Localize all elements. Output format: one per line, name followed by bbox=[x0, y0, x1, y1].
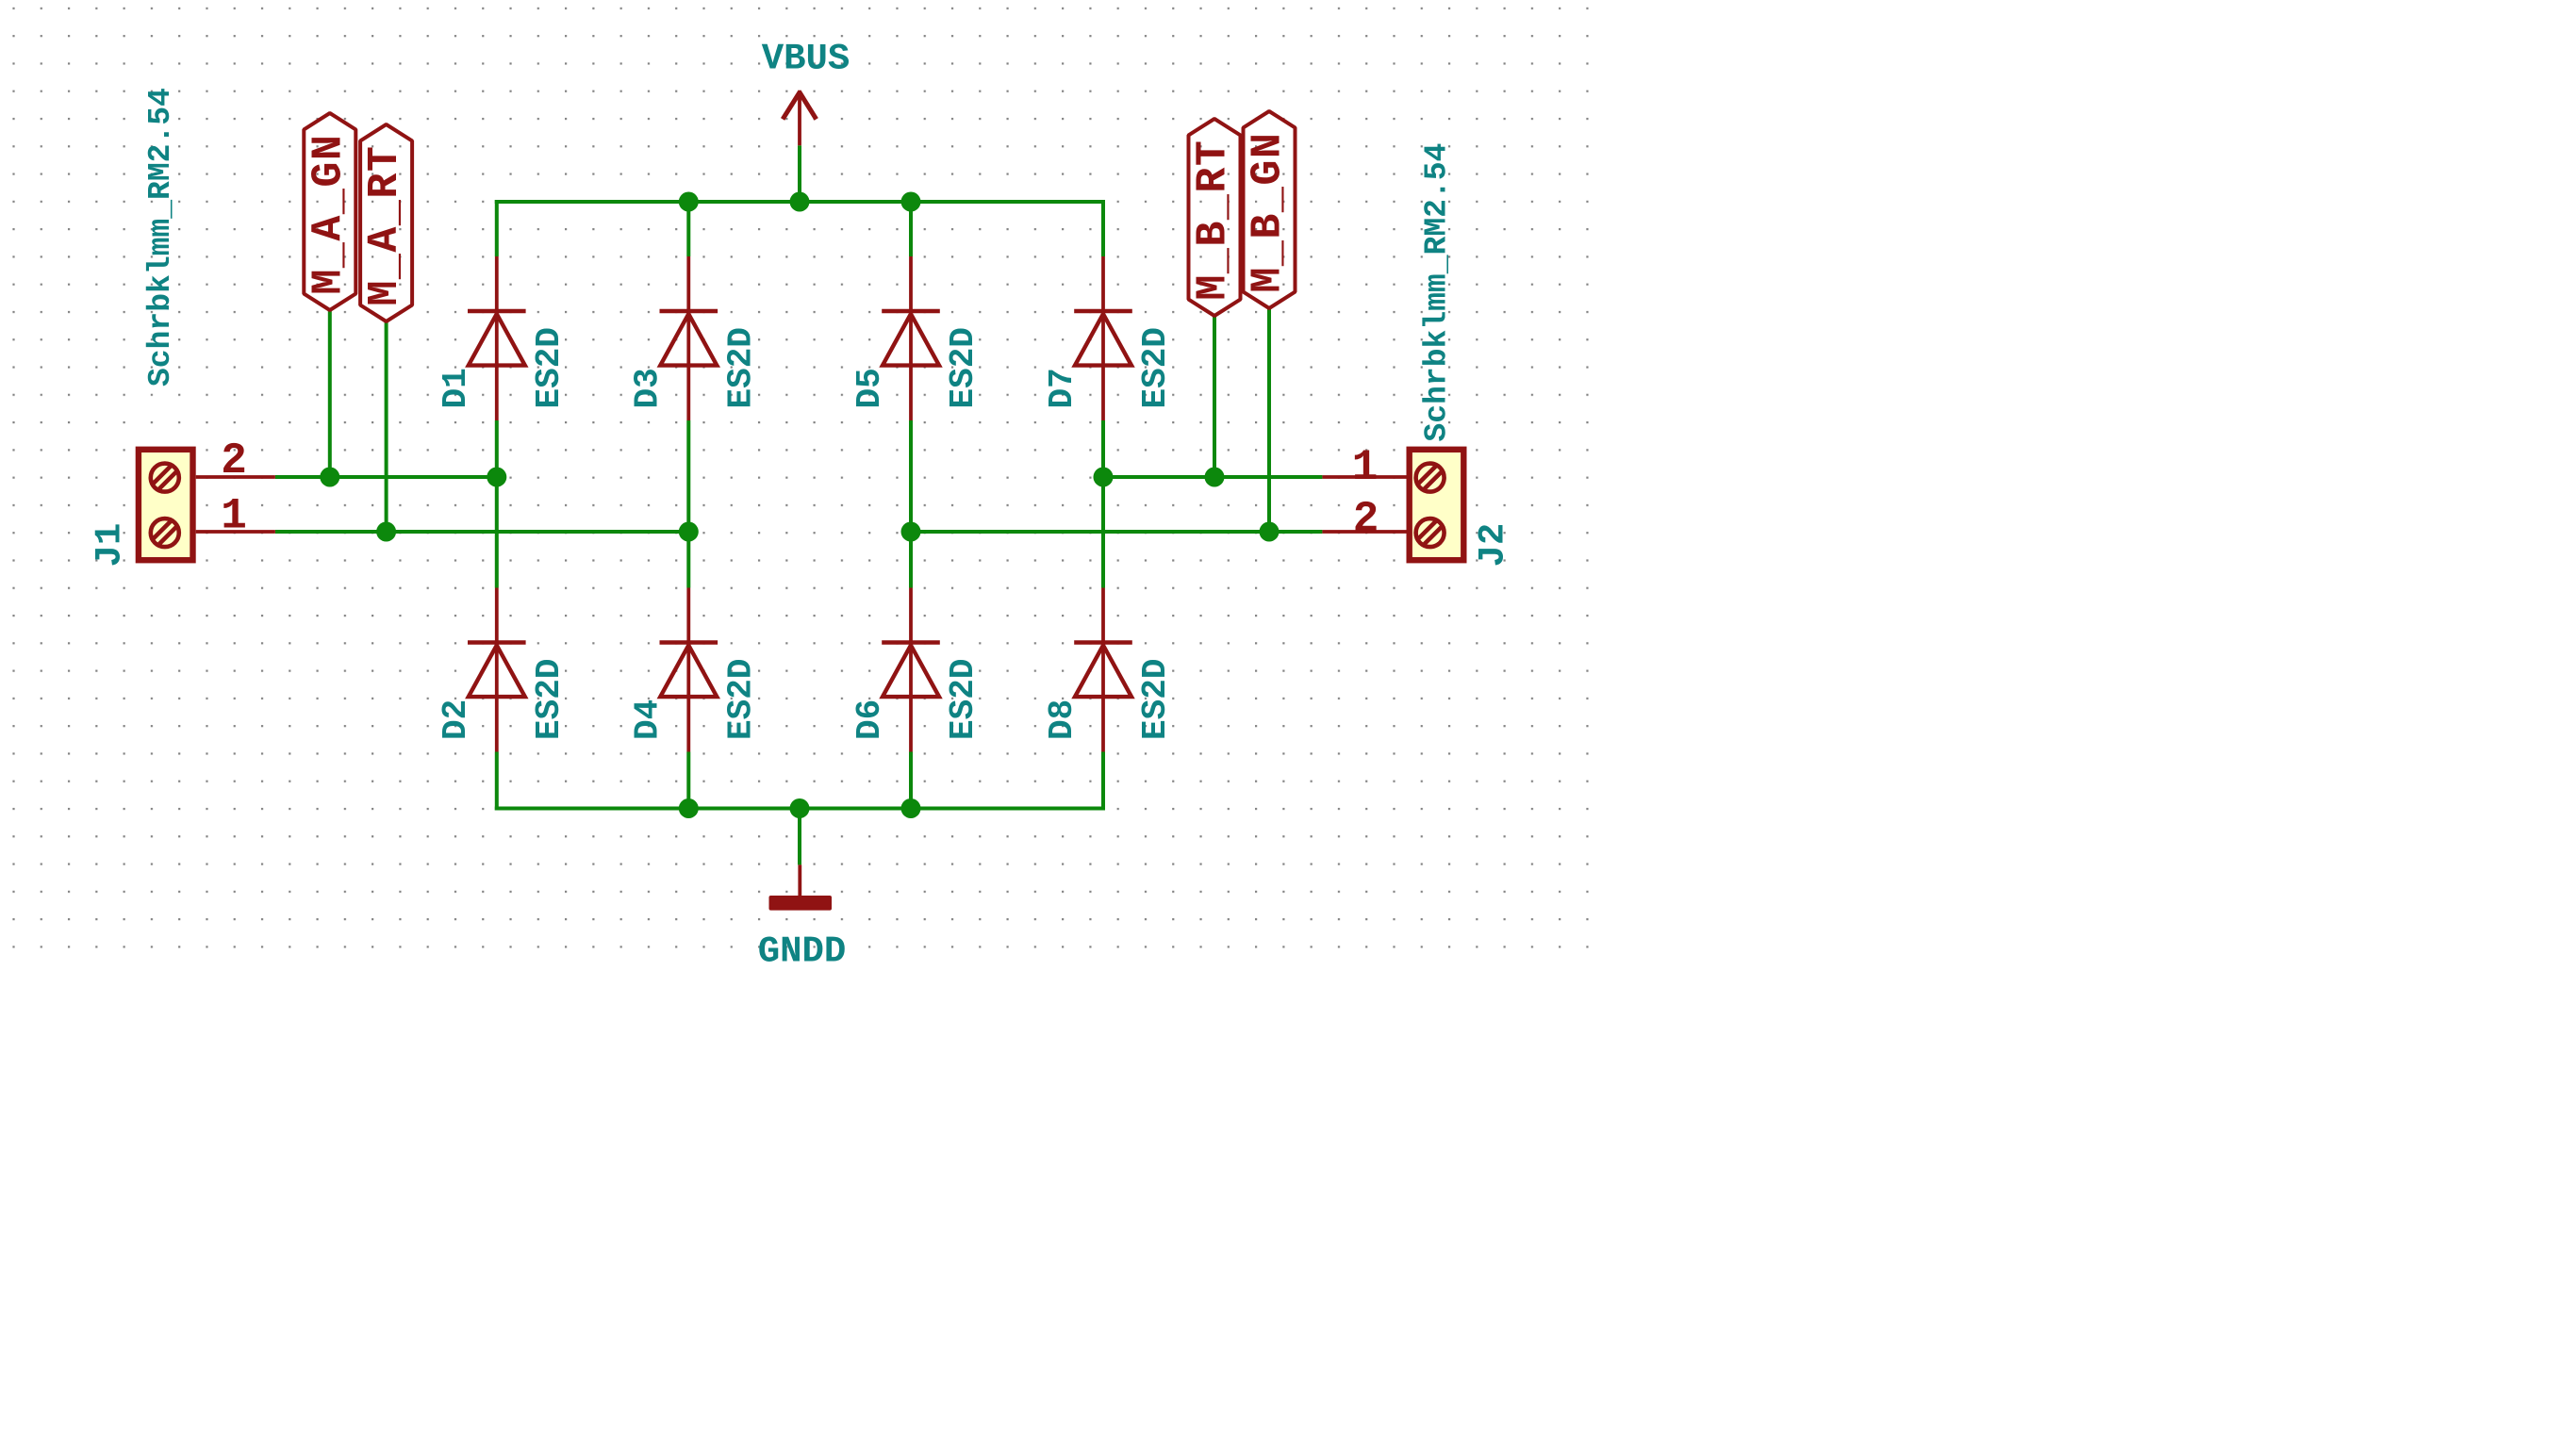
wire row M_A_GN (J1 pin2 to D1/D2) bbox=[275, 475, 497, 479]
wire column D7/D8 upper segment bbox=[1101, 200, 1105, 256]
svg-text:J2: J2 bbox=[1473, 523, 1514, 568]
wire bottom bus GNDD net bbox=[495, 807, 1105, 811]
net label flag M_B_GN bbox=[1244, 111, 1296, 308]
pin J2.2 bbox=[1322, 530, 1406, 534]
wire M_A_GN flag stub bbox=[328, 310, 332, 477]
wire column D3/D4 upper segment bbox=[686, 200, 690, 256]
svg-text:D1: D1 bbox=[437, 368, 475, 408]
junction M_A_GN flag / row bbox=[320, 468, 339, 487]
svg-text:D3: D3 bbox=[629, 368, 668, 408]
junction top bus / D5 bbox=[901, 192, 921, 212]
wire row M_B_RT (D7/D8 to J2 pin1) bbox=[1103, 475, 1322, 479]
wire top bus VBUS net bbox=[495, 200, 1105, 204]
ground symbol GNDD bbox=[769, 864, 833, 910]
pin J2.1 bbox=[1322, 475, 1406, 479]
svg-text:GNDD: GNDD bbox=[758, 931, 847, 973]
wire M_A_RT flag stub bbox=[385, 321, 388, 532]
diode D4 bbox=[660, 588, 718, 752]
junction row / D3-D4 bbox=[679, 522, 699, 542]
svg-text:D5: D5 bbox=[850, 368, 889, 408]
svg-text:ES2D: ES2D bbox=[1136, 327, 1175, 408]
wire column D3/D4 middle segment bbox=[686, 420, 690, 588]
net label flag M_B_RT bbox=[1189, 119, 1241, 316]
junction M_B_GN flag / row bbox=[1260, 522, 1280, 542]
junction row / D1-D2 bbox=[487, 468, 506, 487]
power symbol VBUS bbox=[783, 90, 817, 146]
connector J1 terminal block Schrbklmm_RM2.54 bbox=[139, 450, 193, 560]
diode D3 bbox=[660, 256, 718, 420]
wire VBUS stub bbox=[798, 145, 801, 202]
svg-text:ES2D: ES2D bbox=[1136, 659, 1175, 740]
screw terminal J1 lower bbox=[151, 518, 179, 547]
wire row M_A_RT (J1 pin1 to D3/D4) bbox=[275, 530, 688, 534]
svg-text:D8: D8 bbox=[1043, 699, 1082, 740]
diode D8 bbox=[1074, 588, 1132, 752]
svg-text:M_B_RT: M_B_RT bbox=[1190, 140, 1238, 301]
svg-text:ES2D: ES2D bbox=[721, 327, 760, 408]
svg-text:1: 1 bbox=[1352, 443, 1379, 492]
svg-text:D4: D4 bbox=[629, 699, 668, 740]
wire column D7/D8 lower segment bbox=[1101, 752, 1105, 811]
svg-text:ES2D: ES2D bbox=[530, 327, 569, 408]
screw terminal J1 upper bbox=[151, 464, 179, 492]
svg-text:ES2D: ES2D bbox=[944, 327, 983, 408]
wire column D5/D6 upper segment bbox=[909, 200, 913, 256]
svg-text:VBUS: VBUS bbox=[762, 39, 850, 80]
svg-text:ES2D: ES2D bbox=[944, 659, 983, 740]
svg-text:Schrbklmm_RM2.54: Schrbklmm_RM2.54 bbox=[1420, 143, 1455, 442]
diode D2 bbox=[468, 588, 526, 752]
svg-text:J1: J1 bbox=[90, 523, 131, 568]
wire GNDD stub bbox=[798, 809, 801, 865]
wire column D5/D6 middle segment bbox=[909, 420, 913, 588]
svg-text:M_B_GN: M_B_GN bbox=[1245, 132, 1293, 293]
svg-text:D7: D7 bbox=[1043, 368, 1082, 408]
wire row M_B_GN (D5/D6 to J2 pin2) bbox=[911, 530, 1322, 534]
svg-text:2: 2 bbox=[221, 436, 247, 485]
junction top bus / VBUS bbox=[790, 192, 810, 212]
wire column D1/D2 middle segment bbox=[495, 420, 499, 588]
diode D7 bbox=[1074, 256, 1132, 420]
junction M_A_RT flag / row bbox=[376, 522, 396, 542]
wire M_B_GN flag stub bbox=[1267, 308, 1271, 532]
wire column D3/D4 lower segment bbox=[686, 752, 690, 811]
svg-text:Schrbklmm_RM2.54: Schrbklmm_RM2.54 bbox=[143, 88, 178, 387]
svg-text:D2: D2 bbox=[437, 699, 475, 740]
screw terminal J2 upper bbox=[1416, 464, 1445, 492]
junction bottom bus / D6 bbox=[901, 798, 921, 818]
svg-text:D6: D6 bbox=[850, 699, 889, 740]
net label flag M_A_RT bbox=[360, 124, 412, 321]
svg-text:1: 1 bbox=[221, 492, 247, 541]
screw terminal J2 lower bbox=[1416, 518, 1445, 547]
wire column D1/D2 lower segment bbox=[495, 752, 499, 811]
svg-text:M_A_GN: M_A_GN bbox=[305, 134, 353, 295]
wire column D5/D6 lower segment bbox=[909, 752, 913, 811]
diode D6 bbox=[882, 588, 940, 752]
pin J1.1 bbox=[196, 530, 275, 534]
svg-text:ES2D: ES2D bbox=[721, 659, 760, 740]
pin J1.2 bbox=[196, 475, 275, 479]
svg-text:ES2D: ES2D bbox=[530, 659, 569, 740]
connector J2 terminal block Schrbklmm_RM2.54 bbox=[1410, 450, 1464, 560]
junction row / D7-D8 bbox=[1094, 468, 1114, 487]
junction bottom bus / D4 bbox=[679, 798, 699, 818]
diode D1 bbox=[468, 256, 526, 420]
junction top bus / D3 bbox=[679, 192, 699, 212]
junction M_B_RT flag / row bbox=[1205, 468, 1225, 487]
svg-text:M_A_RT: M_A_RT bbox=[361, 145, 409, 306]
junction bottom bus / GNDD bbox=[790, 798, 810, 818]
wire M_B_RT flag stub bbox=[1213, 316, 1216, 477]
net label flag M_A_GN bbox=[304, 113, 355, 310]
wire column D1/D2 upper segment bbox=[495, 200, 499, 256]
svg-text:2: 2 bbox=[1353, 495, 1379, 544]
diode D5 bbox=[882, 256, 940, 420]
wire column D7/D8 middle segment bbox=[1101, 420, 1105, 588]
junction row / D5-D6 bbox=[901, 522, 921, 542]
